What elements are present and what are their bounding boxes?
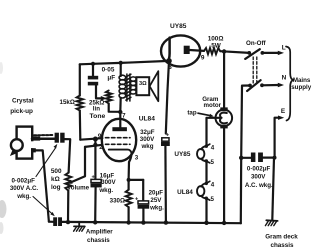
wire: heater chain bottom to chassis rail xyxy=(205,198,207,223)
wire: HT to switch xyxy=(220,51,249,53)
svg-text:μF: μF xyxy=(107,74,115,81)
svg-text:supply: supply xyxy=(291,84,311,91)
node: anode/tone junction xyxy=(118,110,122,114)
wire: pot top lead from coupling cap xyxy=(65,139,71,173)
wire: tone pot bottom to anode node xyxy=(109,104,121,112)
wire: motor tap to heater chain xyxy=(207,118,222,146)
capacitor 20uF 25V wkg xyxy=(135,180,164,225)
valve UY85 rectifier xyxy=(161,23,205,67)
svg-text:motor: motor xyxy=(204,102,222,109)
resistor 15k xyxy=(77,96,83,111)
svg-text:20μF: 20μF xyxy=(149,189,164,196)
svg-text:E: E xyxy=(281,108,286,115)
svg-text:300V: 300V xyxy=(251,174,266,181)
svg-text:wkg.: wkg. xyxy=(149,204,164,211)
svg-text:UL84: UL84 xyxy=(177,189,193,196)
valve UL84 output pentode xyxy=(98,113,155,162)
svg-text:7: 7 xyxy=(122,113,126,120)
wire: grid feed to pin 2 xyxy=(85,145,102,147)
label: tap with leader arrow xyxy=(187,110,213,118)
potentiometer 25k lin Tone xyxy=(106,91,112,104)
transformer T1 primary winding xyxy=(119,75,126,98)
capacitor 0.05uF tone xyxy=(88,64,115,86)
brace: mains supply xyxy=(286,47,294,121)
wire: transformer primary bottom lead to UL84 anode xyxy=(119,98,122,112)
loudspeaker 3 ohm xyxy=(136,71,158,101)
node: motor line to rail xyxy=(222,221,226,225)
svg-text:0·05: 0·05 xyxy=(102,66,115,73)
svg-text:300V: 300V xyxy=(140,136,155,143)
capacitor 0.002uF 300V AC wkg (gram deck isolation) xyxy=(241,153,274,190)
svg-text:wkg.: wkg. xyxy=(16,193,31,200)
svg-text:300V: 300V xyxy=(101,179,116,186)
wire: 0.05uF bottom to tone wiper arrow xyxy=(96,85,102,98)
svg-text:Gram deck: Gram deck xyxy=(265,234,298,241)
svg-text:Amplifier: Amplifier xyxy=(86,229,113,236)
wire: left HT column upper xyxy=(79,64,81,95)
wire: 15k bottom to screen node xyxy=(79,111,82,140)
node: screen / 16uF junction xyxy=(93,137,98,142)
wire: 16uF bottom lead to rail xyxy=(94,187,97,222)
potentiometer 500k log Volume xyxy=(65,173,71,191)
svg-text:100Ω: 100Ω xyxy=(208,35,224,42)
wire: N line down to chassis rail corner xyxy=(240,158,243,223)
wire: HT reservoir column from UY85 junction xyxy=(166,61,169,134)
svg-text:5: 5 xyxy=(211,196,215,203)
node: E / gram deck junction xyxy=(273,156,277,160)
svg-text:UY85: UY85 xyxy=(170,23,187,30)
wire: 32uF bottom lead to rail xyxy=(164,146,167,223)
wire: branch to 20uF xyxy=(129,179,144,181)
transformer T1 secondary winding xyxy=(130,77,136,94)
wire: pickup return to chassis rail xyxy=(36,150,49,221)
wire: volume wiper to pin 2 xyxy=(71,147,85,182)
wiper arrow of tone pot xyxy=(101,96,107,101)
svg-text:UY85: UY85 xyxy=(174,151,190,158)
svg-text:300V A.C.: 300V A.C. xyxy=(10,185,39,192)
wire: up to E terminal xyxy=(275,118,279,158)
ground: gram deck chassis xyxy=(265,220,277,225)
svg-text:Crystal: Crystal xyxy=(12,97,34,104)
wire: pot bottom lead to rail xyxy=(67,191,70,223)
screening braid dashes xyxy=(34,134,54,136)
gram motor xyxy=(202,52,232,224)
capacitor 0.002uF chassis isolation (in rail) xyxy=(53,217,62,226)
svg-text:25V: 25V xyxy=(150,197,162,204)
node: top rail / 0.05uF junction xyxy=(91,62,95,66)
wire: down to gram deck chassis xyxy=(272,158,274,220)
svg-text:3Ω: 3Ω xyxy=(139,81,147,87)
svg-text:3: 3 xyxy=(135,154,139,161)
wire: heater chain middle xyxy=(205,161,207,183)
wire: chassis bottom rail xyxy=(62,222,241,223)
svg-text:5: 5 xyxy=(211,159,215,166)
resistor 100 ohm 5W xyxy=(204,48,220,54)
svg-text:330Ω: 330Ω xyxy=(110,198,125,205)
wire: 16uF top lead xyxy=(94,139,96,179)
svg-text:0·002μF: 0·002μF xyxy=(12,178,36,185)
svg-text:5W: 5W xyxy=(211,42,222,49)
capacitor 32uF 300V wkg reservoir xyxy=(140,129,170,150)
scan smudge left edge xyxy=(0,62,7,234)
svg-text:kΩ: kΩ xyxy=(51,176,60,183)
wire: HT top rail from left corner to UY85 cathode junction xyxy=(80,61,169,64)
wire: transformer primary top lead xyxy=(120,63,122,76)
svg-text:chassis: chassis xyxy=(270,242,294,249)
svg-text:UL84: UL84 xyxy=(139,115,155,122)
node: top rail / output transformer primary junction xyxy=(119,61,123,65)
svg-text:chassis: chassis xyxy=(87,237,110,244)
node: cathode bias junction xyxy=(127,178,131,182)
crystal pick-up xyxy=(10,97,40,158)
svg-text:4: 4 xyxy=(211,144,215,151)
svg-text:Tone: Tone xyxy=(90,113,106,120)
svg-text:lin: lin xyxy=(93,105,100,112)
switch S1 On-Off (DPST) xyxy=(241,40,284,158)
svg-text:15kΩ: 15kΩ xyxy=(60,99,75,106)
svg-text:Volume: Volume xyxy=(67,184,89,191)
resistor 330 ohm cathode bias xyxy=(128,180,130,190)
node: gram motor branch xyxy=(222,49,226,53)
svg-text:wkg.: wkg. xyxy=(98,187,113,194)
label: 0.002uF 300V A.C. wkg with leaders xyxy=(10,144,57,216)
svg-text:pick-up: pick-up xyxy=(10,108,33,115)
transformer T1 core xyxy=(126,74,131,101)
svg-text:L: L xyxy=(282,45,286,52)
capacitor 16uF 300V wkg xyxy=(91,172,117,194)
wire: screen grid feed to pin 9 xyxy=(80,138,102,140)
wire: screened pickup lead xyxy=(32,138,55,141)
svg-text:A.C. wkg.: A.C. wkg. xyxy=(245,182,273,189)
svg-text:0·002μF: 0·002μF xyxy=(247,165,271,172)
svg-text:9: 9 xyxy=(201,54,205,61)
svg-text:tap: tap xyxy=(187,110,197,117)
node: N line / isolation cap junction xyxy=(239,156,243,160)
svg-text:500: 500 xyxy=(51,168,62,175)
svg-text:wkg: wkg xyxy=(140,143,153,150)
capacitor 0.002uF coupling (pickup lead) xyxy=(55,133,65,143)
svg-text:N: N xyxy=(282,75,287,82)
heater of UY85 (pins 4,5) xyxy=(174,144,214,166)
wiper arrow of volume pot xyxy=(67,180,73,184)
svg-text:4: 4 xyxy=(211,182,215,189)
svg-text:On-Off: On-Off xyxy=(246,40,267,47)
wire: pin 7 lead xyxy=(119,112,121,119)
svg-text:log: log xyxy=(51,184,61,191)
node: heater chain to rail xyxy=(204,221,208,225)
node: UY85 pin 3 junction xyxy=(166,58,172,64)
arrow: E terminal xyxy=(278,116,284,120)
heater of UL84 (pins 4,5) xyxy=(177,181,215,203)
wire: UL84 cathode lead down xyxy=(129,153,132,180)
ground: amplifier chassis xyxy=(74,222,85,231)
